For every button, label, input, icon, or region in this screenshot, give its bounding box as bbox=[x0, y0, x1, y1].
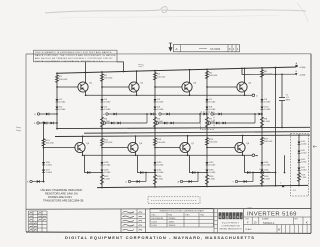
junction bbox=[206, 86, 208, 88]
label D3 value bbox=[104, 99, 111, 104]
label R13 value bbox=[157, 139, 166, 144]
transistor Q8 bbox=[235, 142, 245, 152]
resistor R15 100,000 bbox=[205, 138, 208, 146]
label D6 value bbox=[157, 107, 164, 112]
label D7 value bbox=[209, 99, 216, 104]
wire input bbox=[211, 122, 255, 124]
junction bbox=[56, 128, 58, 130]
wire collector bbox=[135, 136, 137, 142]
junction bbox=[261, 172, 263, 174]
pin label Y bbox=[232, 182, 234, 184]
diode D33 D-664 bbox=[206, 170, 209, 173]
junction bbox=[241, 68, 243, 70]
label R15 value bbox=[209, 139, 218, 144]
junction bbox=[43, 121, 45, 123]
svg-text:a: a bbox=[237, 215, 239, 219]
label D44 value bbox=[301, 141, 306, 145]
svg-text:D-664: D-664 bbox=[152, 225, 158, 227]
junction bbox=[261, 127, 263, 129]
label Q8 bbox=[246, 143, 250, 145]
wire +10 bus bbox=[57, 67, 296, 73]
diode D20 bbox=[171, 122, 174, 125]
label D29 value bbox=[104, 170, 111, 175]
svg-text:1N3606: 1N3606 bbox=[169, 225, 176, 227]
label -15 bbox=[293, 190, 297, 192]
diode D17 bbox=[151, 113, 154, 116]
wire bbox=[275, 127, 277, 185]
svg-text:5169-0-1: 5169-0-1 bbox=[263, 221, 275, 225]
label R7 value bbox=[209, 119, 215, 124]
wire emitter bbox=[136, 92, 138, 95]
wire bias chain bbox=[154, 71, 156, 128]
pin R input bbox=[208, 122, 210, 124]
wire base bbox=[155, 86, 182, 88]
label D28 value bbox=[104, 162, 111, 167]
wire input bbox=[131, 181, 146, 183]
label D48 bbox=[260, 169, 264, 171]
wire bias chain bbox=[261, 68, 263, 128]
wire bias chain bbox=[261, 128, 263, 186]
junction bbox=[136, 94, 138, 96]
svg-text:TRANSISTOR & DIODE CONVERSION: TRANSISTOR & DIODE CONVERSION CHART bbox=[159, 210, 204, 213]
label D32 value bbox=[209, 162, 216, 167]
pin label F bbox=[34, 123, 36, 125]
wire clamp drop bbox=[190, 155, 208, 172]
junction bbox=[85, 94, 87, 96]
wire collector bbox=[189, 70, 191, 82]
junction bbox=[252, 172, 254, 174]
wire B +10(B) bbox=[242, 73, 296, 75]
pin M input bbox=[156, 122, 158, 124]
svg-text:15: 15 bbox=[254, 221, 257, 225]
diode D46 D-662 bbox=[298, 160, 301, 163]
resistor R10 100,000 bbox=[42, 139, 45, 147]
svg-text:t: t bbox=[234, 215, 235, 219]
junction bbox=[154, 127, 156, 129]
junction bbox=[146, 113, 148, 115]
resistor R17 100,000 bbox=[260, 137, 263, 145]
wire bbox=[275, 68, 277, 128]
label Q3 bbox=[193, 83, 197, 85]
label R19 value bbox=[301, 175, 306, 179]
DEC logo bbox=[214, 209, 244, 233]
wire bias chain bbox=[206, 69, 208, 128]
printed circuit note dashed box bbox=[148, 197, 200, 204]
junction bbox=[275, 172, 277, 174]
diode D14 bbox=[114, 113, 117, 116]
wire bbox=[255, 154, 258, 156]
junction bbox=[187, 154, 189, 156]
wire bias chain bbox=[206, 128, 208, 187]
label R17 value bbox=[264, 139, 273, 144]
junction bbox=[135, 135, 137, 137]
label R2 value bbox=[104, 75, 113, 80]
diode D39 bbox=[137, 180, 140, 183]
label D34 value bbox=[264, 162, 271, 167]
diode D42 bbox=[247, 171, 250, 174]
diode D4 D-664 bbox=[101, 107, 104, 110]
wire input bbox=[108, 113, 147, 115]
pin Y input bbox=[235, 180, 237, 182]
diode D43 bbox=[244, 180, 247, 183]
label D45 value bbox=[301, 150, 306, 154]
junction bbox=[206, 113, 208, 115]
junction bbox=[244, 94, 246, 96]
svg-text:INVERTER 5169: INVERTER 5169 bbox=[247, 211, 297, 217]
junction bbox=[254, 113, 256, 115]
wire base bbox=[102, 147, 128, 149]
resistor R2 100,000 bbox=[100, 74, 103, 82]
label D8 value bbox=[209, 107, 216, 112]
diode D29 D-664 bbox=[101, 170, 104, 173]
transistor Q6 bbox=[128, 142, 138, 152]
diode D7 D-662 bbox=[206, 99, 209, 102]
diode D2 D-664 bbox=[56, 107, 59, 110]
label R3 value bbox=[104, 119, 110, 124]
label D35 value bbox=[264, 170, 271, 175]
wire bias chain bbox=[43, 122, 45, 181]
svg-text:J: J bbox=[100, 123, 101, 125]
wire clamp drop bbox=[138, 155, 156, 172]
diode D12 bbox=[44, 122, 47, 125]
wire clamp chain bbox=[298, 135, 300, 183]
label Q1 bbox=[89, 83, 93, 85]
svg-text:DEC: DEC bbox=[152, 214, 157, 216]
svg-text:DEC2894-3B: DEC2894-3B bbox=[152, 218, 164, 220]
wire input bbox=[238, 181, 253, 183]
resistor R18 1,500 bbox=[260, 175, 263, 185]
pin label B bbox=[296, 71, 298, 73]
wire emitter bbox=[82, 153, 84, 156]
wire node rail upper bbox=[57, 127, 310, 128]
wire base bbox=[102, 86, 129, 88]
label D27 value bbox=[46, 170, 53, 175]
wire base bbox=[207, 147, 235, 149]
pin K output bbox=[252, 154, 255, 157]
junction bbox=[56, 113, 58, 115]
resistor R11 100,000 bbox=[100, 138, 103, 146]
revision strip bbox=[174, 45, 240, 52]
junction bbox=[154, 172, 156, 174]
junction bbox=[101, 86, 103, 88]
diode D22 bbox=[219, 113, 222, 116]
resistor R12 1,500 bbox=[100, 175, 103, 185]
diode D35 D-664 bbox=[261, 170, 264, 173]
label D1 value bbox=[59, 99, 66, 104]
junction bbox=[154, 127, 156, 129]
diode D13 bbox=[51, 122, 54, 125]
wire gate node bbox=[147, 113, 155, 115]
wire node stub bbox=[117, 62, 124, 72]
wire clamp drop bbox=[245, 155, 263, 172]
junction bbox=[56, 86, 58, 88]
pin label A bbox=[296, 62, 298, 65]
diode D6 D-664 bbox=[154, 107, 157, 110]
wire emitter bbox=[187, 153, 189, 156]
wire input bbox=[40, 113, 57, 115]
junction bbox=[101, 187, 103, 189]
junction bbox=[56, 72, 58, 74]
label Q6 bbox=[139, 143, 143, 145]
wire input bbox=[161, 113, 200, 115]
pin J input bbox=[103, 122, 105, 124]
svg-text:D: D bbox=[229, 47, 231, 51]
wire input bbox=[159, 122, 200, 124]
junction bbox=[135, 154, 137, 156]
resistor R14 1,500 bbox=[153, 175, 156, 185]
wire gate node bbox=[200, 113, 207, 115]
svg-text:DIGITAL EQUIPMENT CORPORATION: DIGITAL EQUIPMENT CORPORATION - MAYNARD,… bbox=[65, 235, 255, 240]
junction bbox=[242, 154, 244, 156]
pin A +10(A) bbox=[295, 65, 297, 67]
svg-text:+10(B): +10(B) bbox=[299, 75, 306, 77]
label D46 value bbox=[301, 159, 306, 163]
pin L input bbox=[159, 113, 161, 115]
junction bbox=[206, 186, 208, 188]
wire bbox=[252, 173, 254, 182]
wire collector bbox=[85, 72, 87, 82]
label R9 value bbox=[264, 119, 270, 124]
label R6 value bbox=[209, 72, 218, 77]
junction bbox=[261, 185, 263, 187]
wire collector bbox=[82, 136, 84, 142]
junction bbox=[187, 135, 189, 137]
diode D11 bbox=[46, 113, 49, 116]
label C1 value bbox=[286, 95, 291, 102]
diode D10 D-664 bbox=[261, 107, 264, 110]
diode D21 bbox=[204, 113, 207, 116]
resistor R3 1,500 bbox=[100, 117, 103, 127]
junction bbox=[43, 181, 45, 183]
pin label S bbox=[27, 182, 29, 184]
wire bbox=[284, 155, 286, 172]
svg-text:EQUIPMENT: EQUIPMENT bbox=[222, 222, 240, 224]
pin C -15 bbox=[282, 185, 284, 187]
svg-text:SIZE: SIZE bbox=[245, 218, 248, 220]
diode D38 bbox=[140, 171, 143, 174]
svg-text:2N2894: 2N2894 bbox=[169, 218, 177, 220]
junction bbox=[101, 147, 103, 149]
svg-text:A: A bbox=[176, 47, 178, 51]
transistor Q1 bbox=[78, 82, 88, 92]
wire base bbox=[57, 86, 78, 88]
wire emitter bbox=[135, 153, 137, 156]
label R1 value bbox=[59, 76, 68, 81]
label D47 value bbox=[301, 167, 306, 171]
junction bbox=[206, 127, 208, 129]
junction bbox=[101, 128, 103, 130]
diode D19 bbox=[164, 122, 167, 125]
wire emitter bbox=[244, 92, 246, 95]
wire input bbox=[183, 181, 198, 183]
resistor R8 100,000 bbox=[260, 70, 263, 78]
label D9 value bbox=[264, 99, 271, 104]
wire bbox=[241, 68, 243, 74]
diode D30 D-662 bbox=[154, 162, 157, 165]
label D5 value bbox=[157, 99, 164, 104]
wire emitter bbox=[242, 153, 244, 156]
junction bbox=[199, 113, 201, 115]
junction bbox=[56, 122, 58, 124]
pin label P bbox=[208, 114, 210, 116]
label D10 value bbox=[264, 107, 271, 112]
junction bbox=[101, 71, 103, 73]
junction bbox=[82, 136, 84, 138]
pin B +10(B) bbox=[295, 73, 297, 76]
wire collector bbox=[187, 136, 189, 143]
svg-text:UNLESS OTHERWISE INDICATED:RES: UNLESS OTHERWISE INDICATED:RESISTORS ARE… bbox=[41, 188, 84, 203]
svg-text:CORPORATION: CORPORATION bbox=[221, 225, 240, 228]
svg-text:CS 5169: CS 5169 bbox=[210, 47, 221, 51]
resistor R7 1,500 bbox=[205, 117, 208, 127]
wire base bbox=[155, 147, 180, 149]
diode D28 D-662 bbox=[101, 162, 104, 165]
junction bbox=[261, 67, 263, 69]
diode D32 D-662 bbox=[206, 162, 209, 165]
pin E input bbox=[37, 113, 39, 115]
junction bbox=[275, 74, 277, 76]
junction bbox=[136, 70, 138, 72]
wire bbox=[145, 173, 147, 182]
wire bbox=[281, 101, 283, 128]
junction bbox=[197, 172, 199, 174]
junction bbox=[82, 154, 84, 156]
junction bbox=[298, 134, 300, 136]
svg-text:D48: D48 bbox=[260, 169, 264, 171]
wire input bbox=[106, 122, 147, 124]
label +10(A) bbox=[299, 66, 306, 69]
transistor Q5 bbox=[75, 142, 85, 152]
junction bbox=[154, 70, 156, 72]
revision arrow bbox=[169, 43, 173, 52]
diode D25 bbox=[259, 113, 262, 116]
transistor Q7 bbox=[180, 142, 190, 152]
diode D18 bbox=[167, 113, 170, 116]
diode D27 D-664 bbox=[42, 170, 45, 173]
junction bbox=[281, 73, 283, 75]
label R16 value bbox=[209, 176, 215, 181]
diode D5 D-662 bbox=[154, 99, 157, 102]
notes box bbox=[34, 50, 118, 63]
diode D47 D-662 bbox=[298, 168, 301, 171]
transistor Q4 bbox=[237, 82, 247, 92]
wire output node bbox=[86, 94, 252, 96]
wire collector bbox=[242, 135, 244, 142]
svg-text:TITLE: TITLE bbox=[248, 207, 252, 209]
diode D3 D-662 bbox=[101, 99, 104, 102]
pin label J bbox=[100, 123, 101, 125]
diode D37 bbox=[37, 180, 40, 183]
pin label U bbox=[125, 182, 127, 184]
pin label H bbox=[103, 114, 105, 116]
label R8 value bbox=[264, 71, 273, 76]
general notes text bbox=[41, 188, 84, 203]
svg-text:g: g bbox=[226, 215, 228, 219]
junction bbox=[145, 172, 147, 174]
wire collector bbox=[244, 68, 246, 82]
wire base bbox=[207, 86, 237, 88]
junction bbox=[298, 185, 300, 187]
label D31 value bbox=[157, 170, 164, 175]
junction bbox=[189, 69, 191, 71]
pin label L bbox=[156, 114, 158, 116]
conversion chart bbox=[150, 208, 214, 227]
wire bbox=[298, 183, 300, 185]
transistor Q2 bbox=[129, 82, 139, 92]
svg-text:W: W bbox=[177, 182, 179, 184]
svg-text:D-662: D-662 bbox=[152, 221, 157, 223]
junction bbox=[261, 113, 263, 115]
caption digital equipment corporation bbox=[65, 235, 255, 240]
label D30 value bbox=[157, 162, 164, 167]
svg-text:SCALE: SCALE bbox=[245, 228, 252, 231]
label R10 value bbox=[46, 140, 55, 145]
junction bbox=[154, 113, 156, 115]
wire collector extension bbox=[85, 62, 87, 73]
diode D23 bbox=[216, 122, 219, 125]
wire input bbox=[39, 122, 57, 124]
svg-text:d: d bbox=[219, 215, 221, 219]
resistor R5 1,500 bbox=[153, 117, 156, 127]
junction bbox=[43, 147, 45, 149]
label D4 value bbox=[104, 107, 111, 112]
label R4 value bbox=[157, 74, 166, 79]
label Q5 bbox=[86, 143, 90, 145]
wire bbox=[252, 172, 276, 174]
junction bbox=[206, 172, 208, 174]
wire emitter bbox=[189, 92, 191, 95]
junction bbox=[206, 68, 208, 70]
pin D output bbox=[252, 94, 255, 97]
label Q2 bbox=[140, 83, 144, 85]
junction bbox=[154, 86, 156, 88]
junction bbox=[281, 127, 283, 129]
pin label K bbox=[256, 155, 258, 157]
wire bbox=[281, 74, 283, 97]
pin S input bbox=[30, 180, 32, 182]
diode D9 D-662 bbox=[261, 99, 264, 102]
diode D16 bbox=[118, 122, 121, 125]
junction bbox=[85, 72, 87, 74]
label D26 value bbox=[46, 162, 53, 167]
diode D41 bbox=[189, 180, 192, 183]
junction bbox=[101, 172, 103, 174]
pin F input bbox=[37, 122, 39, 124]
resistor R13 100,000 bbox=[153, 138, 156, 146]
diode D1 D-662 bbox=[56, 99, 59, 102]
diode D26 D-662 bbox=[42, 162, 45, 165]
junction bbox=[261, 127, 263, 129]
label R11 value bbox=[104, 139, 113, 144]
junction bbox=[123, 71, 125, 73]
junction bbox=[206, 147, 208, 149]
resistor R1 100,000 bbox=[55, 75, 58, 83]
wire input bbox=[32, 181, 43, 183]
wire bbox=[197, 173, 199, 182]
junction bbox=[244, 67, 246, 69]
svg-text:+10(A): +10(A) bbox=[299, 66, 306, 69]
resistor R4 100,000 bbox=[153, 72, 156, 80]
wire bbox=[42, 121, 44, 124]
wire input bbox=[213, 113, 255, 115]
gate network dashed box bbox=[201, 112, 215, 130]
pin P input bbox=[211, 113, 213, 115]
diode D40 bbox=[192, 171, 195, 174]
wire base bbox=[44, 147, 75, 149]
svg-text:DEC: DEC bbox=[186, 214, 191, 216]
wire bbox=[146, 114, 148, 123]
title: INVERTER 5169 bbox=[244, 207, 312, 233]
